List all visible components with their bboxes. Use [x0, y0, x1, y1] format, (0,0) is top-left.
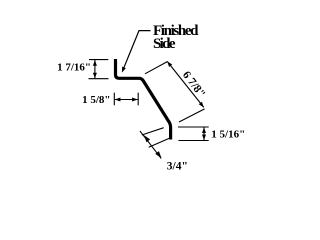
dimension 1 5/8" right tick [137, 93, 139, 106]
dimension 1 5/16" lower extension line [178, 140, 208, 142]
svg-text:6 7/8": 6 7/8" [180, 69, 207, 100]
svg-text:1 7/16": 1 7/16" [57, 62, 91, 74]
dimension 1 5/16" upper extension line [178, 126, 209, 128]
dimension 1 5/8" arrow line [115, 99, 138, 101]
dimension 3/4" lower extension line [149, 138, 171, 148]
dimension 1 5/16" arrow line [203, 127, 205, 140]
dimension 1 7/16" arrow line [94, 60, 96, 78]
svg-text:1 5/8": 1 5/8" [82, 94, 110, 106]
dimension 3/4" arrow line [140, 131, 161, 159]
leader arrowhead [120, 67, 126, 74]
dimension 6 7/8" lower extension line [179, 109, 205, 122]
leader line from Finished Side label [123, 31, 151, 71]
profile Z-flashing outline [116, 59, 171, 140]
dimension 1 7/16" bottom tick [89, 78, 109, 80]
dimension 6 7/8" upper extension line [145, 62, 167, 74]
svg-text:Side: Side [153, 36, 176, 52]
dimension 6 7/8" arrow line [167, 61, 204, 107]
svg-text:1 5/16": 1 5/16" [211, 129, 245, 141]
dimension 1 7/16" top tick [89, 59, 108, 61]
dimension 1 5/8" left tick [113, 93, 115, 106]
svg-text:3/4": 3/4" [167, 160, 188, 172]
dimension 3/4" upper extension line [142, 128, 164, 135]
